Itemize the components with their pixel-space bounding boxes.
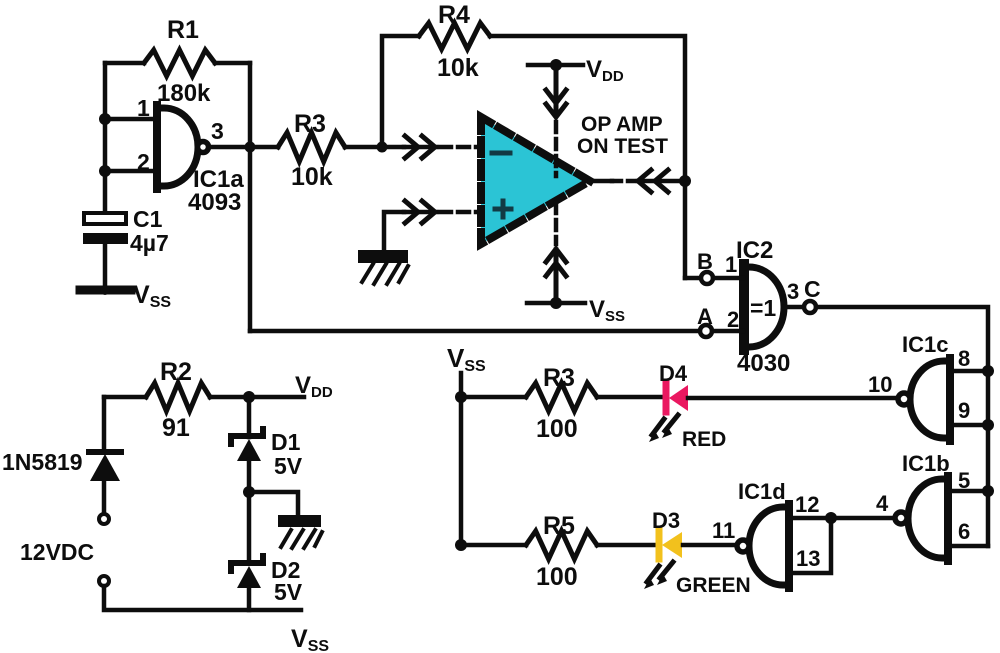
wire IC1b pin5 bbox=[948, 489, 988, 494]
svg-text:180k: 180k bbox=[157, 80, 211, 107]
node pin8 junction bbox=[982, 365, 994, 377]
wire IC1d pin13 bbox=[789, 518, 831, 573]
wire D4 to IC1c bbox=[688, 396, 897, 401]
svg-text:1: 1 bbox=[725, 252, 737, 277]
wire IC1d pin12 bbox=[789, 516, 831, 521]
svg-text:IC2: IC2 bbox=[736, 237, 773, 264]
terminal 12VDC plus bbox=[99, 514, 109, 524]
capacitor C1 bbox=[83, 206, 169, 256]
node D1-D2 junction bbox=[243, 486, 255, 498]
node pin2 junction bbox=[99, 165, 111, 177]
node pin5 junction bbox=[982, 485, 994, 497]
op-amp output dashed wire bbox=[590, 170, 685, 192]
wire A rail bbox=[250, 329, 699, 334]
node VDD junction bbox=[243, 391, 255, 403]
NAND gate IC1a bbox=[137, 95, 244, 216]
wire R5 to D3 bbox=[597, 543, 656, 548]
wire Vss branch vertical bbox=[459, 373, 464, 545]
node pin1 junction bbox=[99, 113, 111, 125]
zener diode D1 bbox=[231, 429, 303, 479]
wire IC1a pin2 bbox=[105, 169, 157, 174]
resistor R3 100 bbox=[526, 383, 597, 411]
terminal A bbox=[700, 325, 712, 337]
svg-text:100: 100 bbox=[536, 415, 578, 443]
svg-text:2: 2 bbox=[727, 307, 739, 332]
wire 12VDC top corner bbox=[104, 395, 146, 400]
NAND gate IC1b bbox=[876, 451, 970, 561]
power VDD op-amp bbox=[528, 56, 624, 176]
terminal B bbox=[701, 272, 713, 284]
svg-text:OP AMP: OP AMP bbox=[581, 113, 663, 136]
wire VDD node down bbox=[247, 397, 252, 437]
svg-text:GREEN: GREEN bbox=[676, 574, 751, 597]
svg-text:4µ7: 4µ7 bbox=[130, 230, 169, 256]
ground stub non-inverting bbox=[384, 212, 404, 250]
svg-text:IC1b: IC1b bbox=[902, 451, 950, 476]
svg-text:6: 6 bbox=[958, 519, 970, 544]
node R3-R4 junction bbox=[377, 142, 388, 153]
svg-text:D4: D4 bbox=[659, 361, 688, 386]
wire IC1a output bbox=[209, 145, 278, 150]
wire to R3 100 bbox=[461, 395, 526, 400]
svg-text:100: 100 bbox=[536, 563, 578, 591]
node R5 junction bbox=[455, 539, 467, 551]
wire IC2 input B bbox=[685, 276, 701, 281]
svg-text:=1: =1 bbox=[750, 295, 776, 321]
svg-text:R3: R3 bbox=[543, 364, 575, 392]
svg-text:IC1d: IC1d bbox=[738, 479, 786, 504]
wire R3 100 to D4 bbox=[597, 395, 663, 400]
wire IC1a pin1 bbox=[105, 117, 157, 122]
svg-text:3: 3 bbox=[787, 279, 799, 304]
resistor R4 10k bbox=[419, 23, 490, 49]
svg-text:10k: 10k bbox=[291, 163, 333, 191]
wire bottom rail Vss bbox=[104, 586, 301, 610]
svg-text:8: 8 bbox=[958, 346, 970, 371]
wire left input node vertical bbox=[103, 63, 108, 290]
NAND gate IC1c bbox=[868, 332, 970, 441]
wire IC1c pin8 bbox=[950, 369, 988, 374]
svg-text:D1: D1 bbox=[271, 429, 301, 455]
wire IC1c pin9 bbox=[950, 423, 988, 428]
ground symbol op-amp bbox=[358, 250, 408, 284]
svg-text:R3: R3 bbox=[294, 110, 326, 138]
svg-text:11: 11 bbox=[712, 518, 735, 543]
op-amp non-inverting input arrows bbox=[404, 201, 478, 223]
svg-text:D3: D3 bbox=[652, 508, 680, 533]
svg-text:9: 9 bbox=[958, 398, 970, 423]
wire to R5 bbox=[461, 543, 526, 548]
svg-text:3: 3 bbox=[211, 118, 224, 144]
XOR gate IC2 bbox=[736, 237, 790, 377]
svg-text:13: 13 bbox=[796, 546, 820, 571]
wire D3 to IC1d bbox=[683, 543, 736, 548]
wire D1 to node bbox=[247, 460, 252, 563]
svg-text:10k: 10k bbox=[437, 54, 479, 82]
diode 1N5819 bbox=[2, 397, 121, 514]
wire A circle to gate bbox=[712, 329, 743, 334]
svg-text:B: B bbox=[697, 249, 713, 274]
wire node to ground stub bbox=[249, 492, 298, 516]
resistor R1 bbox=[144, 50, 215, 76]
op-amp U1 on test bbox=[481, 117, 590, 244]
resistor R5 100 bbox=[526, 531, 597, 559]
svg-text:A: A bbox=[697, 304, 713, 329]
zener diode D2 bbox=[231, 556, 303, 605]
svg-text:5V: 5V bbox=[274, 453, 303, 479]
svg-text:91: 91 bbox=[162, 414, 190, 442]
wire C to right rail bbox=[816, 307, 988, 546]
LED D4 red bbox=[649, 361, 726, 451]
svg-text:ON TEST: ON TEST bbox=[577, 135, 668, 158]
wire R2 to VDD node bbox=[210, 395, 304, 400]
svg-text:12: 12 bbox=[795, 492, 819, 517]
node pin12 junction bbox=[825, 512, 837, 524]
svg-text:12VDC: 12VDC bbox=[20, 539, 94, 565]
wire D2 to bottom rail bbox=[247, 588, 252, 610]
resistor R3 10k bbox=[278, 133, 345, 162]
wire R3 to node bbox=[345, 145, 404, 150]
ground symbol power bbox=[278, 515, 322, 548]
svg-text:R5: R5 bbox=[543, 512, 575, 540]
ground Vss IC1a bbox=[80, 281, 171, 311]
svg-text:IC1c: IC1c bbox=[902, 332, 948, 357]
wire IC1d to IC1b pin4 bbox=[831, 516, 895, 521]
wire R1 right lead bbox=[215, 61, 250, 66]
svg-text:R2: R2 bbox=[160, 358, 192, 386]
power Vss op-amp bbox=[527, 203, 625, 325]
wire R4 right to rail bbox=[490, 36, 685, 278]
wire B circle to gate bbox=[713, 276, 743, 281]
op-amp inverting input arrows bbox=[404, 136, 478, 158]
svg-text:10: 10 bbox=[868, 372, 892, 397]
wire output feedback vertical bbox=[248, 63, 253, 331]
svg-text:4093: 4093 bbox=[188, 189, 241, 216]
svg-text:R1: R1 bbox=[167, 16, 199, 44]
LED D3 green bbox=[644, 508, 751, 597]
svg-text:1N5819: 1N5819 bbox=[2, 449, 83, 475]
svg-text:RED: RED bbox=[682, 428, 726, 451]
node output-rail junction bbox=[679, 175, 691, 187]
terminal 12VDC minus bbox=[99, 576, 109, 586]
wire IC2 output bbox=[784, 305, 804, 310]
svg-text:C1: C1 bbox=[133, 206, 163, 232]
resistor R2 91 bbox=[146, 383, 210, 411]
svg-text:4030: 4030 bbox=[737, 350, 790, 377]
svg-text:C: C bbox=[804, 276, 821, 302]
node R1-output junction bbox=[245, 142, 256, 153]
svg-text:R4: R4 bbox=[438, 1, 470, 29]
svg-text:4: 4 bbox=[876, 491, 889, 516]
wire R4 branch bbox=[382, 36, 419, 147]
node pin9 junction bbox=[982, 419, 994, 431]
NAND gate IC1d bbox=[712, 479, 820, 588]
node R3b junction bbox=[455, 391, 467, 403]
svg-text:5V: 5V bbox=[274, 579, 303, 605]
wire IC1b pin6 bbox=[948, 544, 988, 549]
wire R1 top left lead bbox=[105, 61, 144, 66]
terminal C bbox=[804, 301, 816, 313]
